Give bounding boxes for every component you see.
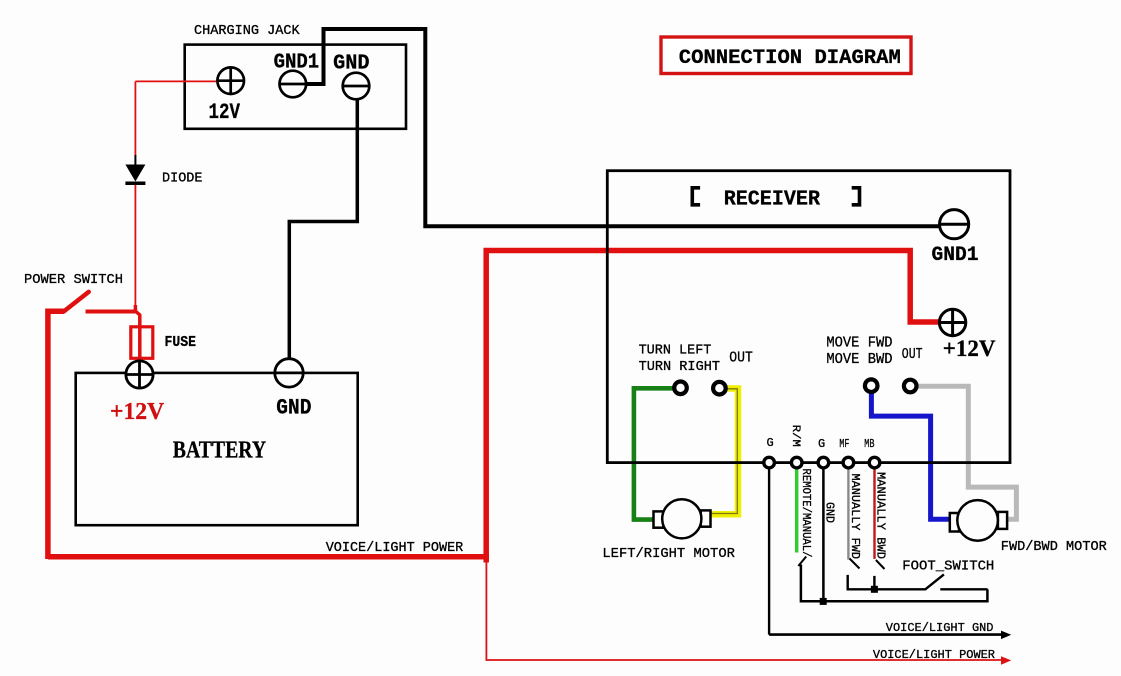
svg-text:VOICE/LIGHT POWER: VOICE/LIGHT POWER <box>873 648 995 662</box>
svg-text:12V: 12V <box>209 100 241 125</box>
svg-text:LEFT/RIGHT MOTOR: LEFT/RIGHT MOTOR <box>602 546 735 562</box>
svg-text:MANUALLY BWD: MANUALLY BWD <box>874 472 887 559</box>
svg-text:OUT: OUT <box>729 351 753 367</box>
svg-text:GND1: GND1 <box>274 52 320 75</box>
svg-text:MOVE BWD: MOVE BWD <box>826 352 892 368</box>
svg-text:GND: GND <box>823 502 836 523</box>
svg-text:GND1: GND1 <box>932 244 979 267</box>
svg-text:CONNECTION DIAGRAM: CONNECTION DIAGRAM <box>679 47 901 70</box>
svg-text:G: G <box>767 436 774 450</box>
svg-text:OUT: OUT <box>902 347 923 363</box>
svg-text:+12V: +12V <box>943 336 996 362</box>
svg-text:RECEIVER: RECEIVER <box>724 188 820 212</box>
svg-text:REMOTE/MANUAL/: REMOTE/MANUAL/ <box>799 469 812 558</box>
svg-text:VOICE/LIGHT POWER: VOICE/LIGHT POWER <box>326 541 464 556</box>
svg-text:MF: MF <box>839 437 849 451</box>
svg-text:FWD/BWD MOTOR: FWD/BWD MOTOR <box>1001 540 1107 555</box>
svg-text:FOOT_SWITCH: FOOT_SWITCH <box>902 558 994 574</box>
svg-text:DIODE: DIODE <box>162 172 203 187</box>
svg-text:GND: GND <box>333 53 369 76</box>
svg-text:FUSE: FUSE <box>165 335 197 351</box>
svg-text:MOVE FWD: MOVE FWD <box>826 336 892 352</box>
svg-text:CHARGING JACK: CHARGING JACK <box>194 24 301 39</box>
svg-text:GND: GND <box>276 396 311 421</box>
svg-text:MANUALLY FWD: MANUALLY FWD <box>848 474 861 560</box>
svg-text:G: G <box>818 437 825 451</box>
svg-text:R/M: R/M <box>789 425 801 447</box>
svg-text:+12V: +12V <box>110 399 165 425</box>
svg-text:TURN LEFT: TURN LEFT <box>639 344 712 359</box>
svg-text:TURN RIGHT: TURN RIGHT <box>639 360 720 375</box>
svg-text:VOICE/LIGHT GND: VOICE/LIGHT GND <box>886 621 994 635</box>
svg-text:POWER SWITCH: POWER SWITCH <box>24 273 123 288</box>
svg-text:BATTERY: BATTERY <box>173 437 267 464</box>
svg-text:MB: MB <box>864 437 874 451</box>
